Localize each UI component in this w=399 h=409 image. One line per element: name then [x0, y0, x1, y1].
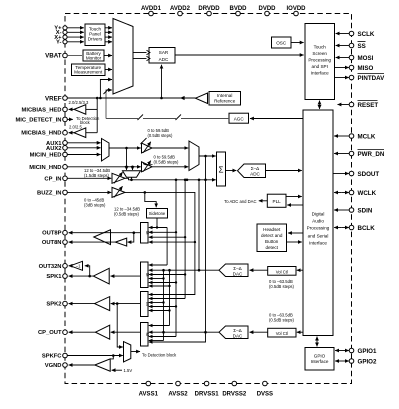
svg-text:Button: Button [265, 239, 279, 244]
wire AGC control line with switches [106, 118, 138, 120]
wire digital to PLL lower [287, 204, 303, 206]
headset detect and button detect box [257, 224, 287, 252]
pin DRVSS1 [195, 381, 220, 397]
amp CP_IN (12 to -34.5dB) [112, 173, 125, 183]
node monitor mux out [130, 179, 133, 182]
wire sum to sigma-delta ADC [226, 170, 237, 172]
svg-text:SPKFC: SPKFC [42, 354, 62, 360]
temperature measurement box [72, 64, 106, 76]
node B m2r5 [175, 281, 177, 283]
pin WCLK [349, 190, 376, 197]
gain arrow through PGA2 [143, 161, 151, 172]
pin Y+ [54, 26, 67, 32]
pin RESET (active low) [349, 101, 378, 109]
pin GPIO2 [349, 358, 377, 365]
wire SCLK [336, 33, 350, 35]
svg-text:M: M [145, 273, 150, 277]
node v199 bottom [198, 269, 201, 272]
amp BUZZ_IN (0 to -45dB) [112, 187, 125, 197]
node stub1/MICIN_HND crossing [125, 166, 128, 169]
pin MICBIAS_HND [21, 130, 67, 136]
svg-text:SDOUT: SDOUT [358, 171, 380, 178]
svg-text:AVSS2: AVSS2 [168, 392, 188, 398]
amp CP_OUT driver [96, 325, 110, 339]
PLL box [267, 194, 286, 207]
svg-text:MICIN_HED: MICIN_HED [30, 153, 62, 159]
output mux M3 (SPK2) [141, 292, 150, 317]
node DAC2/v6 [162, 331, 165, 334]
wire 1.5V into VGND amp [112, 369, 122, 371]
gain arrow through PGA1 [143, 142, 151, 153]
svg-text:Screen: Screen [312, 51, 327, 56]
svg-text:OUT8P: OUT8P [42, 231, 61, 237]
wire mux M3 to SPK2 amp [111, 303, 141, 305]
svg-text:MICBIAS_HND: MICBIAS_HND [21, 131, 61, 137]
bus vertical C [184, 180, 186, 299]
wire SPKFC to detection mux [67, 355, 123, 357]
wire GPIO1 (bidirectional) [335, 350, 342, 352]
svg-text:Processing: Processing [307, 226, 330, 231]
pin MOSI [349, 55, 373, 62]
sum block [217, 152, 226, 186]
wire AUX1 to aux mux [67, 142, 100, 144]
pin AUX1 [46, 141, 67, 147]
wire SDOUT [333, 173, 349, 175]
output mux M1 (OUT8) [141, 223, 150, 244]
wire DAC2 output to mux M4 [149, 331, 219, 333]
wire temperature measurement to input mux [105, 69, 112, 71]
digital audio processing and serial interface box [303, 110, 333, 336]
node VREF/bias [96, 97, 99, 100]
pin BVDD [229, 6, 247, 16]
node SPK1/OUT32N [88, 275, 91, 278]
label To Detection block (mic) [76, 116, 100, 125]
mux M2 input row 5 [149, 282, 176, 284]
wire PLL to digital upper [286, 196, 302, 198]
svg-text:(3dB steps): (3dB steps) [84, 203, 106, 208]
svg-text:DRVSS2: DRVSS2 [222, 392, 247, 398]
svg-text:Interface: Interface [311, 71, 329, 76]
touch screen processing and SPI interface box U-touch [305, 24, 335, 100]
svg-text:OUT32N: OUT32N [39, 264, 62, 270]
node PGA1 input tap [125, 147, 128, 150]
svg-text:IOVDD: IOVDD [286, 6, 306, 12]
svg-text:Audio: Audio [312, 219, 324, 224]
wire touch to digital (bidirectional) [319, 101, 321, 105]
svg-text:MICBIAS_HED: MICBIAS_HED [22, 107, 62, 113]
svg-text:GPIO1: GPIO1 [358, 348, 377, 355]
svg-text:AVDD2: AVDD2 [170, 6, 191, 12]
wire CP_OUT amp to pin [69, 331, 96, 333]
volume control 1 box [268, 267, 296, 276]
bus vertical v6 [163, 270, 165, 340]
svg-text:detect: detect [265, 245, 278, 250]
svg-text:DAC: DAC [233, 271, 243, 276]
pin SCLK [349, 31, 375, 38]
pin AVDD1 [141, 6, 162, 16]
svg-text:–1: –1 [76, 264, 81, 269]
amp OUT32N inverter [70, 261, 82, 270]
mux M1 input row 1 [149, 227, 167, 229]
pin BCLK [349, 225, 375, 232]
wire mic monitor to input mux (with switch) [106, 90, 112, 119]
pin CP_OUT [38, 330, 67, 336]
wires touch panel drivers to input mux [105, 27, 112, 29]
pin IOVDD [286, 6, 306, 16]
pin AVDD2 [170, 6, 191, 16]
wire mux M4 to CP_OUT amp [111, 331, 141, 333]
wire WCLK (bidirectional) [334, 192, 341, 194]
node VREF/mux tap [99, 97, 102, 100]
svg-text:Digital: Digital [312, 212, 325, 217]
wire headset detect to digital [287, 241, 302, 243]
node on monitor line [204, 179, 207, 182]
wires input mux to SAR ADC [133, 52, 147, 54]
wire detection mux output [131, 351, 140, 353]
svg-text:M: M [145, 231, 150, 235]
pin SDOUT [349, 171, 379, 178]
mux M3 input row 5 [149, 310, 170, 312]
wire vol ctl 2 to DAC2 [250, 331, 268, 333]
svg-text:(0.5dB steps): (0.5dB steps) [154, 160, 180, 165]
node v6 m3r3 [162, 301, 164, 303]
svg-text:DVSS: DVSS [257, 392, 273, 398]
svg-text:AVSS1: AVSS1 [139, 392, 159, 398]
node VREF/SAR [160, 97, 163, 100]
GPIO interface box [305, 348, 334, 371]
gain arrow through BUZZ amp [114, 186, 123, 197]
wire bias rail down [96, 98, 98, 133]
svg-text:CP_OUT: CP_OUT [38, 330, 62, 336]
amp MICBIAS_HND buffer [74, 128, 86, 138]
aux input mux [102, 139, 110, 162]
mux M1 input row 4 [149, 241, 195, 243]
wire buzz output down the bus to mux M3 [125, 192, 195, 294]
gain arrow through CP amp [114, 172, 123, 183]
svg-text:and SPI: and SPI [312, 64, 328, 69]
wire AUX2 to aux mux [67, 147, 100, 149]
wire SPK2 tap down to detection mux [117, 304, 123, 347]
svg-text:BVDD: BVDD [229, 6, 247, 12]
node sidetone on row1 [156, 226, 158, 228]
pin DRVSS2 [222, 381, 247, 397]
mux M2 input row 4 [149, 278, 164, 280]
mux M4 input row 5 [149, 340, 164, 342]
pin MICBIAS_HED [22, 107, 68, 113]
spkfc detection mux [124, 342, 131, 362]
switch on mic monitor wire [104, 89, 110, 95]
monitor mux (selects mic/aux to sum) [123, 171, 141, 178]
wire MICBIAS_HED amp to pin [69, 108, 74, 110]
wire tap PGA1 input to monitor mux [126, 148, 128, 170]
mux M2 input row 6 [149, 285, 170, 287]
svg-text:Vol Ctl: Vol Ctl [276, 269, 288, 274]
svg-text:BCLK: BCLK [358, 225, 376, 232]
wire PGA1 to record mux [152, 147, 188, 149]
wire digital to vol ctl 2 [297, 331, 303, 333]
svg-text:MICIN_HND: MICIN_HND [29, 165, 61, 171]
svg-text:RESET: RESET [358, 102, 379, 109]
wire VREF rail [67, 97, 195, 99]
wire vol ctl 1 to DAC1 [250, 269, 268, 271]
OSC box [272, 37, 292, 48]
wire battery monitor to input mux [104, 55, 112, 57]
svg-text:OUT8N: OUT8N [42, 240, 62, 246]
wire CP_IN to CP amp [67, 177, 111, 179]
wire RESET [338, 104, 350, 106]
node v6 m2r4 [162, 277, 164, 279]
bus vertical A (sidetone distribution) [166, 228, 168, 266]
svg-text:Sidetone: Sidetone [149, 211, 166, 216]
wire tap PGA2 input to monitor mux [132, 167, 134, 170]
amp OUT8 driver [94, 230, 111, 245]
wire sidetone output to mux M1 row1 [156, 218, 158, 228]
node PGA2 input tap [131, 166, 134, 169]
wire X+ to touch panel drivers [67, 36, 84, 38]
pin SPKFC [42, 353, 67, 359]
mux M3 input row 2 [149, 298, 185, 300]
mux M1 input row 2 [149, 231, 176, 233]
node v5 m2r6 [168, 285, 170, 287]
wire SPK1 amp to pin [69, 275, 94, 277]
wire PGA2 to record mux [152, 166, 188, 168]
amp OUT8N inverter [115, 238, 126, 246]
gain label 0 to -45dB [84, 198, 106, 208]
amp SPK1 driver [93, 268, 109, 284]
gain label 0 to 59.5dB lower [143, 155, 179, 165]
node record/monitor [204, 155, 207, 158]
svg-text:VBAT: VBAT [45, 53, 62, 60]
node OUT8 split [133, 231, 136, 234]
pin MISO [349, 65, 373, 72]
amp PGA2 (handset mic 0 to 59.5dB) [142, 162, 153, 172]
svg-text:(0.5dB steps): (0.5dB steps) [269, 318, 295, 323]
gain label 0 to -63.5dB (0.5dB steps) lower [269, 313, 295, 323]
svg-text:VREF: VREF [45, 95, 62, 102]
gain label 12 to -34.5dB [84, 168, 110, 178]
pin VGND [45, 363, 68, 369]
svg-text:To Detection block: To Detection block [142, 352, 177, 357]
pin SS (active low) [349, 42, 366, 50]
bus vertical B [175, 180, 177, 337]
svg-text:DRVSS1: DRVSS1 [195, 392, 220, 398]
svg-text:SCLK: SCLK [358, 31, 375, 38]
svg-text:Σ: Σ [219, 166, 224, 175]
pin MICIN_HED [30, 152, 68, 158]
mux M2 input row 1 [149, 264, 167, 266]
pin X- [56, 30, 67, 36]
wire bias to MICBIAS_HND amp [86, 132, 97, 134]
svg-text:BUZZ_IN: BUZZ_IN [37, 190, 61, 196]
svg-text:WCLK: WCLK [358, 190, 377, 197]
sigma-delta ADC [238, 164, 266, 178]
wire MICBIAS_HND amp to pin [69, 132, 74, 134]
wire OUT32N branch [85, 266, 90, 276]
node monitor/bus2 [186, 179, 189, 182]
node DAC2/monitor vertical [204, 331, 207, 334]
sidetone gain label 12 to -34.5dB [114, 207, 140, 217]
svg-text:Σ–Δ: Σ–Δ [251, 166, 259, 171]
svg-text:1.5V: 1.5V [124, 368, 133, 373]
wire BUZZ_IN to buzz amp [67, 191, 111, 193]
wire aux mux to PGA1 [109, 147, 141, 149]
sigma-delta DAC 1 (headphone) [219, 264, 248, 277]
node SPK2 tap [116, 302, 119, 305]
pin SDIN [349, 207, 373, 214]
svg-text:SPK1: SPK1 [46, 274, 62, 280]
pin VREF [45, 95, 67, 102]
pin Y- [56, 40, 67, 46]
pin MICIN_HND [29, 165, 67, 171]
svg-text:Processing: Processing [308, 58, 331, 63]
switch tick 1 [138, 115, 144, 121]
wire VREF to SAR ADC reference [161, 65, 163, 98]
svg-text:SDIN: SDIN [358, 207, 373, 214]
svg-text:Interface: Interface [311, 359, 329, 364]
node v5 m3r5 [168, 309, 170, 311]
AGC box [229, 113, 249, 123]
wire OUT8N amp to pin [69, 241, 116, 243]
svg-text:DAC: DAC [233, 333, 243, 338]
svg-text:MIC_DETECT_IN: MIC_DETECT_IN [15, 117, 61, 123]
switch tick 2 [176, 115, 182, 121]
node v199 top [198, 179, 201, 182]
VREF arrowhead toward pin [180, 96, 185, 100]
svg-text:2.0/2.5: 2.0/2.5 [69, 125, 82, 130]
pin X+ [54, 35, 67, 41]
wire sigma-delta ADC to digital [266, 170, 302, 172]
wire record node down to mux M4 [149, 156, 206, 342]
pin OUT8N [42, 240, 67, 246]
wire Y+ to touch panel drivers [67, 27, 84, 29]
svg-text:Monitor: Monitor [86, 56, 102, 61]
wire PINTDAV [335, 77, 349, 79]
mux M2 input row 3 [149, 274, 185, 276]
wire MICIN_HND to PGA2 [67, 166, 141, 168]
svg-text:OSC: OSC [276, 41, 287, 46]
node DAC1/v5 [168, 269, 171, 272]
amp MICBIAS_HED buffer [74, 105, 86, 115]
mux M3 input row 4 [149, 306, 176, 308]
wire MCLK [334, 135, 349, 137]
pin AUX2 [46, 146, 67, 152]
battery monitor box [83, 50, 104, 61]
wire record mux to sum [199, 155, 216, 157]
wire digital to GPIO (bidirectional) [316, 337, 318, 342]
svg-text:AGC: AGC [234, 116, 245, 121]
pin OUT8P [42, 230, 67, 236]
wire VREF tap to input mux [100, 80, 112, 99]
chip boundary (dashed) [65, 14, 352, 384]
SAR ADC box [147, 48, 176, 64]
wire digital to AGC [250, 118, 303, 120]
wire GPIO2 (bidirectional) [335, 360, 342, 362]
svg-text:M: M [145, 332, 150, 336]
pin DVSS [257, 381, 273, 397]
wire X- to touch panel drivers [67, 31, 84, 33]
svg-text:SAR: SAR [159, 50, 169, 55]
wire SS [336, 45, 350, 47]
touch panel drivers box [85, 24, 105, 46]
svg-text:and Serial: and Serial [308, 234, 329, 239]
wire BCLK (bidirectional) [334, 227, 341, 229]
svg-text:PINTDAV: PINTDAV [358, 75, 386, 82]
wire MICIN_HED to aux mux [67, 154, 100, 156]
pin SPK1 [46, 274, 67, 280]
volume control 2 box [268, 328, 296, 337]
wire MIC_DETECT_IN to detection [67, 118, 73, 120]
svg-text:To ADC and DAC: To ADC and DAC [224, 199, 256, 204]
node monitor/B [175, 179, 178, 182]
svg-text:DVDD: DVDD [258, 6, 276, 12]
bus vertical v5 [169, 270, 171, 325]
wire DAC1 output to mux M2 [149, 269, 219, 271]
wire OSC to touch screen block [291, 42, 304, 44]
svg-text:ADC: ADC [159, 57, 169, 62]
internal reference box [209, 92, 241, 106]
pin SPK2 [46, 301, 67, 307]
svg-text:AVDD1: AVDD1 [141, 6, 162, 12]
svg-text:Drivers: Drivers [88, 36, 103, 41]
wire bus vertical record to DAC1 [198, 180, 200, 270]
wire SDIN [334, 209, 349, 211]
pin CP_IN [44, 176, 67, 182]
wire monitor mux output down [131, 177, 133, 180]
pin DRVDD [198, 6, 220, 16]
svg-text:Headset: Headset [263, 227, 281, 232]
output mux M2 (SPK1) [141, 262, 150, 288]
mux M4 input row 4 [149, 336, 176, 338]
pin DVDD [258, 6, 276, 16]
svg-text:(1.5dB steps): (1.5dB steps) [84, 173, 110, 178]
svg-text:(0.5dB steps): (0.5dB steps) [114, 212, 140, 217]
svg-text:Interface: Interface [309, 241, 327, 246]
wire digital to vol ctl 1 [297, 269, 303, 271]
node monitor/C [184, 179, 187, 182]
wire mux M2 to SPK1 amp [111, 275, 141, 277]
sidetone box [147, 209, 168, 219]
wire digital to headset detect [288, 232, 303, 234]
svg-text:(0.5dB steps): (0.5dB steps) [269, 284, 295, 289]
svg-text:CP_IN: CP_IN [44, 176, 61, 182]
amp PGA1 (headset mic 0 to 59.5dB) [142, 143, 153, 153]
wire bias to MICBIAS_HED amp [86, 108, 97, 110]
wire OUT32N amp to pin [69, 265, 71, 267]
svg-text:Measurement: Measurement [74, 70, 103, 75]
node DAC1/v6 [162, 269, 165, 272]
wire SAR ADC to touch screen block [175, 54, 304, 56]
svg-text:MISO: MISO [358, 65, 374, 72]
wire VBAT to battery monitor [67, 55, 82, 57]
wire VGND amp to pin [69, 364, 95, 366]
node B m3r4 [175, 305, 177, 307]
svg-text:Touch: Touch [314, 45, 327, 50]
node C m2r3 [184, 273, 186, 275]
mux M3 input row 3 [149, 302, 164, 304]
pin PINTDAV (active low) [349, 74, 385, 82]
pin VBAT [45, 53, 67, 60]
svg-text:Y-: Y- [56, 40, 62, 46]
svg-text:PLL: PLL [273, 199, 282, 204]
amp SPK2 driver [95, 297, 110, 311]
svg-text:detect and: detect and [261, 233, 283, 238]
wire SPK2 amp to pin [69, 303, 95, 305]
output mux M4 (CP_OUT) [141, 323, 150, 347]
svg-text:GPIO: GPIO [314, 354, 326, 359]
svg-text:Vol Ctl: Vol Ctl [276, 331, 288, 336]
mux M4 input row 1 [149, 325, 170, 327]
input mux (SAR) [113, 19, 133, 95]
